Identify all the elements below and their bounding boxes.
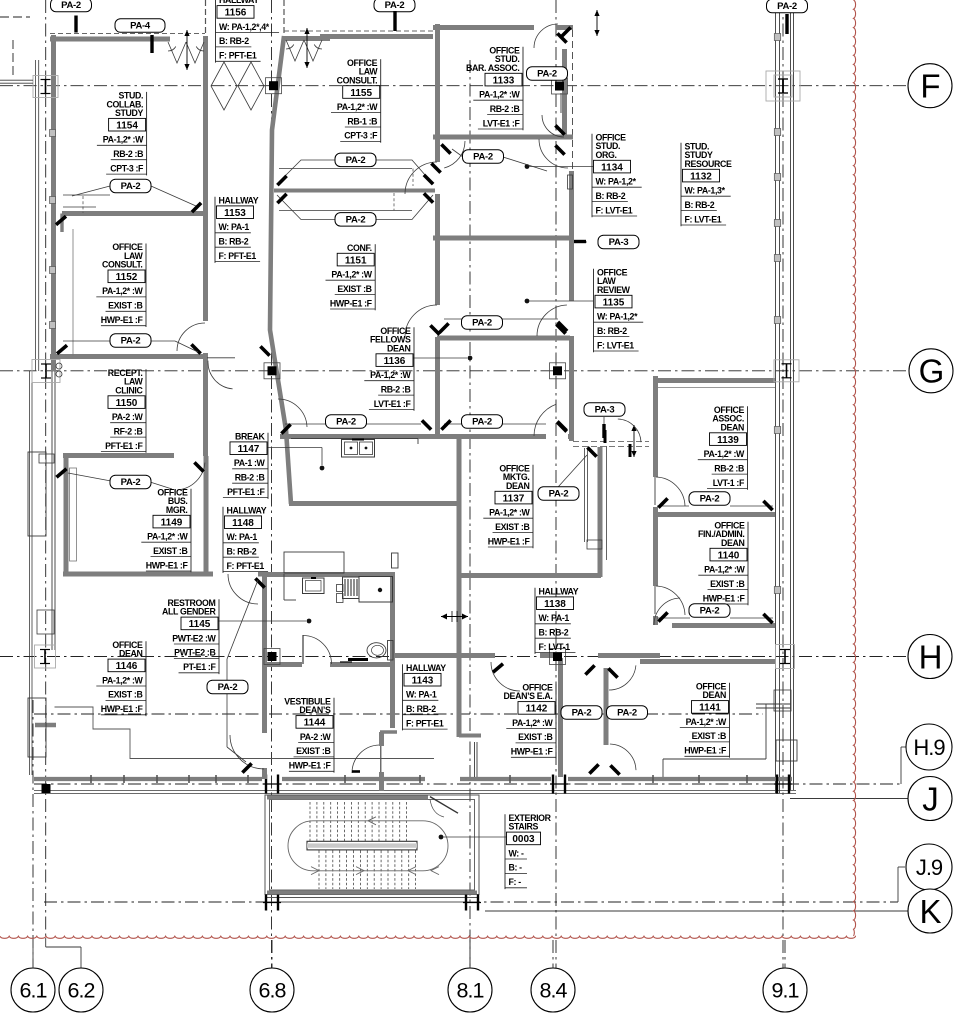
svg-text:1150: 1150: [116, 398, 138, 409]
svg-text:CONF.: CONF.: [347, 243, 372, 253]
svg-text:PA-1 :W: PA-1 :W: [234, 458, 266, 468]
top-left cut grid stubs: [0, 16, 30, 18]
south band mullion x420: [419, 775, 421, 783]
node hallway/G: [264, 363, 280, 379]
svg-text:LVT-E1 :F: LVT-E1 :F: [483, 118, 521, 128]
column symbol south band east: [776, 775, 778, 794]
door 1148->south: [228, 574, 258, 604]
wall tie east F: [766, 71, 800, 101]
mullion tick west y325: [50, 322, 56, 329]
bubble 9.1: [763, 968, 807, 1012]
svg-text:LVT-E1 :F: LVT-E1 :F: [374, 399, 412, 409]
svg-text:W: PA-1: W: PA-1: [406, 690, 437, 700]
node hallway/F: [266, 78, 282, 94]
svg-text:1143: 1143: [412, 676, 434, 687]
svg-text:DEAN: DEAN: [720, 422, 744, 432]
svg-text:1151: 1151: [345, 255, 367, 266]
svg-text:PA-2: PA-2: [473, 152, 493, 163]
svg-text:PFT-E1 :F: PFT-E1 :F: [227, 487, 265, 497]
bubble H: [908, 635, 952, 679]
south band mullion x124: [123, 775, 125, 783]
restroom small fixtures: [337, 585, 344, 592]
svg-text:PT-E1 :F: PT-E1 :F: [183, 662, 216, 672]
door 1152: [177, 323, 205, 351]
svg-text:W: PA-1: W: PA-1: [227, 532, 258, 542]
svg-text:HWP-E1 :F: HWP-E1 :F: [684, 746, 727, 756]
column symbol south band mid: [552, 775, 554, 794]
south band mullion x216: [215, 775, 217, 783]
door 1137 north: [534, 404, 556, 436]
svg-text:HWP-E1 :F: HWP-E1 :F: [488, 536, 531, 546]
stair treads lower flight: [318, 851, 320, 890]
svg-text:PA-2: PA-2: [121, 336, 141, 347]
bubble H.9: [906, 724, 952, 770]
svg-text:PA-1,2* :W: PA-1,2* :W: [704, 449, 745, 459]
svg-text:STAIRS: STAIRS: [509, 822, 539, 832]
wall 1139 west: [653, 376, 658, 477]
1137 interior casework lines: [584, 448, 586, 542]
svg-text:1148: 1148: [232, 518, 254, 529]
bubble J: [908, 777, 952, 821]
svg-text:HALLWAY: HALLWAY: [219, 0, 259, 5]
svg-text:F: LVT-1: F: LVT-1: [539, 642, 571, 652]
east exterior wall outer pair: [790, 0, 792, 790]
svg-text:B: RB-2: B: RB-2: [227, 547, 257, 557]
svg-text:H: H: [919, 638, 942, 675]
svg-text:CONSULT.: CONSULT.: [337, 75, 378, 85]
svg-text:PA-1,2* :W: PA-1,2* :W: [686, 717, 727, 727]
south exterior wall band: [34, 777, 262, 781]
leader room 1134: [525, 164, 530, 169]
door 1139: [656, 477, 685, 506]
svg-text:PA-2: PA-2: [472, 417, 492, 428]
svg-text:HALLWAY: HALLWAY: [227, 506, 267, 516]
svg-text:1152: 1152: [116, 272, 138, 283]
svg-text:PA-1,2* :W: PA-1,2* :W: [103, 135, 144, 145]
svg-text:1149: 1149: [161, 517, 183, 528]
svg-text:ALL GENDER: ALL GENDER: [162, 607, 217, 617]
svg-text:B: RB-2: B: RB-2: [219, 36, 249, 46]
restroom nook: [284, 552, 344, 573]
pill PA-2 hex lower: [335, 213, 376, 227]
west wall stub below H: [35, 723, 56, 727]
svg-text:PA-2: PA-2: [549, 489, 569, 500]
break room south wall: [289, 501, 459, 506]
svg-text:PA-2 :W: PA-2 :W: [300, 732, 332, 742]
svg-text:1155: 1155: [350, 88, 372, 99]
south band mullion x747: [746, 775, 748, 783]
svg-text:PA-2: PA-2: [218, 682, 238, 693]
1149 closet lining: [70, 468, 77, 561]
pill PA-2 kitchen: [326, 415, 367, 429]
svg-text:CPT-3 :F: CPT-3 :F: [344, 131, 378, 141]
bubble G: [909, 349, 953, 393]
svg-text:PA-4: PA-4: [130, 21, 151, 32]
door vestibule west: [230, 735, 264, 769]
bubble J.9: [906, 844, 952, 890]
toilet: [388, 641, 394, 661]
west exterior wall outer face (above G): [35, 60, 37, 371]
aux dash-dot line y714: [34, 713, 763, 715]
west exterior wall (F to G): [51, 35, 56, 371]
svg-text:1137: 1137: [503, 493, 525, 504]
south band mullion x510: [509, 775, 511, 783]
bubble K: [908, 889, 952, 933]
grid line 9.1: [782, 0, 784, 968]
svg-text:BREAK: BREAK: [235, 432, 266, 442]
double-acting door diamonds at hallway 1156/1153: [211, 62, 237, 110]
svg-text:W: PA-1,2*: W: PA-1,2*: [596, 177, 637, 187]
wall restroom north: [262, 572, 395, 577]
wall 1139/1140 divider: [653, 512, 775, 517]
svg-text:EXIST :B: EXIST :B: [692, 731, 726, 741]
node 1135/G: [550, 363, 566, 379]
wall tie east H: [776, 645, 795, 669]
leader stairs 0003: [439, 835, 444, 840]
svg-text:DEAN: DEAN: [702, 690, 726, 700]
bubble 6.2: [59, 968, 103, 1012]
wall hallway1153 west / rooms 1154-1152 east: [203, 36, 208, 321]
pill PA-2 1135: [462, 316, 503, 330]
wall type arrows hallway 1143: [441, 616, 468, 618]
wall 1149-1148 south: [63, 572, 213, 577]
bubble F: [908, 64, 952, 108]
svg-text:W: PA-1,2*,4*: W: PA-1,2*,4*: [219, 22, 270, 32]
svg-text:EXIST :B: EXIST :B: [153, 546, 187, 556]
svg-text:PA-3: PA-3: [609, 237, 629, 248]
svg-text:1147: 1147: [238, 444, 260, 455]
stair corner column symbols: [265, 895, 267, 911]
wall restroom south: [262, 662, 302, 667]
door 1146->vestibule arc: [263, 732, 265, 734]
leader room 1147: [267, 447, 322, 449]
svg-text:B: RB-2: B: RB-2: [685, 200, 715, 210]
hallway1153 east wall (slanted): [270, 36, 291, 504]
svg-text:K: K: [919, 893, 941, 930]
mullion tick west y270: [50, 267, 56, 274]
entry canopy step lines: [55, 707, 435, 759]
svg-text:1138: 1138: [544, 599, 566, 610]
svg-text:PA-1,2* :W: PA-1,2* :W: [331, 270, 372, 280]
stair landing bar: [307, 841, 417, 850]
mullion tick west y133: [50, 130, 56, 137]
grid line 8.4: [555, 0, 557, 968]
svg-text:1142: 1142: [526, 704, 548, 715]
svg-text:B: RB-2: B: RB-2: [597, 326, 627, 336]
pill PA-2 1140: [689, 604, 730, 618]
pill PA-2 1152: [110, 334, 151, 348]
mullion block west: [37, 610, 54, 634]
svg-text:STUDY: STUDY: [115, 108, 144, 118]
grid line K: [485, 910, 908, 912]
wall 1155-1151 east / col rooms west: [435, 24, 440, 162]
stair bottom wall gray: [267, 891, 477, 895]
window frame west 2: [28, 698, 46, 757]
svg-text:F: F: [920, 68, 939, 105]
node restroom/H: [264, 649, 280, 665]
svg-text:PA-2 :W: PA-2 :W: [112, 412, 144, 422]
svg-text:RB-2 :B: RB-2 :B: [381, 384, 411, 394]
wall restroom east: [390, 574, 395, 663]
svg-text:J.9: J.9: [916, 855, 943, 880]
restroom stall partition: [283, 574, 285, 600]
bubble 6.8: [250, 968, 294, 1012]
hallway1156 west wall dash up: [205, 0, 207, 36]
svg-text:EXIST :B: EXIST :B: [108, 301, 142, 311]
grid line J: [790, 798, 908, 800]
leader room 1136: [413, 357, 467, 359]
door 1135 east: [537, 305, 567, 336]
north wall hallway1156-1155: [284, 36, 330, 41]
grid line J.9: [44, 901, 898, 903]
pill PA-2 vestibule: [207, 680, 248, 694]
door 1136 upper (from 1151 area): [405, 162, 437, 194]
east wall mullion ticks: [774, 34, 780, 41]
svg-text:PA-2: PA-2: [336, 417, 356, 428]
svg-text:RF-2 :B: RF-2 :B: [114, 426, 143, 436]
svg-text:PA-1,2* :W: PA-1,2* :W: [479, 90, 520, 100]
svg-text:F: PFT-E1: F: PFT-E1: [406, 718, 444, 728]
grid line 6.8: [271, 0, 273, 968]
wall tie west H: [35, 645, 56, 668]
svg-text:PA-1,2* :W: PA-1,2* :W: [489, 508, 530, 518]
door 1134 from 1133 side: [444, 141, 465, 168]
svg-text:F: -: F: -: [509, 877, 522, 887]
svg-text:B: RB-2: B: RB-2: [219, 237, 249, 247]
svg-text:F: LVT-E1: F: LVT-E1: [685, 214, 722, 224]
svg-text:W: PA-1,2*: W: PA-1,2*: [597, 312, 638, 322]
svg-text:PA-2: PA-2: [385, 0, 405, 11]
wall corridor east (1141 west): [604, 668, 609, 745]
svg-text:RB-2 :B: RB-2 :B: [714, 463, 744, 473]
wall tie east G: [774, 360, 799, 382]
wall tie west G: [32, 360, 60, 383]
svg-text:EXIST :B: EXIST :B: [710, 579, 744, 589]
svg-text:1154: 1154: [116, 121, 138, 132]
svg-text:EXIST :B: EXIST :B: [296, 746, 330, 756]
pill PA-3 1134 area: [580, 241, 587, 243]
bulkhead 1135: [444, 318, 462, 320]
south band mullion x91: [90, 775, 92, 783]
1152 east lining: [72, 229, 74, 356]
window frame west 1: [28, 452, 46, 536]
svg-text:PA-1,2* :W: PA-1,2* :W: [337, 102, 378, 112]
svg-text:EXIST :B: EXIST :B: [108, 690, 142, 700]
svg-text:PA-2: PA-2: [121, 181, 141, 192]
bubble 8.1: [448, 968, 492, 1012]
svg-text:HALLWAY: HALLWAY: [539, 587, 579, 597]
svg-text:HWP-E1 :F: HWP-E1 :F: [289, 761, 332, 771]
wall 1150/1149 divider: [63, 453, 174, 458]
pill PA-2 1149: [110, 475, 151, 489]
svg-text:1146: 1146: [116, 661, 138, 672]
svg-text:CLINIC: CLINIC: [115, 385, 143, 395]
pill PA-2 1137 door header: [559, 455, 588, 487]
door jamb bolds hallway1138: [604, 430, 607, 443]
wall hallway1148 west: [204, 456, 209, 574]
svg-text:1144: 1144: [304, 718, 326, 729]
south band mullion x248: [247, 775, 249, 783]
restroom sink: [303, 578, 325, 594]
wall 1133 south: [433, 135, 573, 140]
pill PA-2 1139: [689, 492, 730, 506]
svg-text:F: LVT-E1: F: LVT-E1: [597, 340, 634, 350]
dashed outline above north walls: [50, 33, 205, 35]
svg-text:PA-1,2* :W: PA-1,2* :W: [512, 718, 553, 728]
door hallway1143 at H: [491, 662, 520, 691]
svg-text:PA-2: PA-2: [617, 708, 637, 719]
svg-text:PA-3: PA-3: [595, 405, 615, 416]
stair door leaf: [430, 797, 458, 814]
small frame on 1134 east wall: [568, 175, 573, 189]
svg-text:ORG.: ORG.: [596, 150, 617, 160]
svg-text:PA-2: PA-2: [61, 0, 81, 11]
svg-text:1156: 1156: [225, 8, 247, 19]
leader restroom PA-2 pill: [226, 659, 228, 681]
wall 1133 east: [562, 49, 567, 138]
node 1138/H: [550, 649, 566, 665]
svg-text:HWP-E1 :F: HWP-E1 :F: [330, 298, 373, 308]
svg-text:F: PFT-E1: F: PFT-E1: [219, 51, 257, 61]
svg-text:RB-2 :B: RB-2 :B: [235, 473, 265, 483]
leader room 1145: [218, 620, 306, 622]
bulkhead 1154: [63, 194, 110, 196]
svg-text:F: LVT-E1: F: LVT-E1: [596, 205, 633, 215]
svg-text:1134: 1134: [601, 162, 623, 173]
mullion tick west y200: [50, 197, 56, 204]
svg-text:DEAN’S: DEAN’S: [299, 705, 331, 715]
vestibule east wall: [379, 732, 384, 746]
svg-text:RESOURCE: RESOURCE: [685, 159, 733, 169]
door corridor south: [610, 744, 636, 770]
south band mullion x157: [156, 775, 158, 783]
restroom threshold marks: [348, 658, 368, 661]
pills PA-2 corridor 1142/1141: [561, 706, 602, 720]
svg-text:CONSULT.: CONSULT.: [102, 260, 143, 270]
svg-text:PA-2: PA-2: [777, 1, 797, 12]
svg-text:H.9: H.9: [913, 735, 945, 760]
svg-text:DEAN’S E.A.: DEAN’S E.A.: [504, 691, 553, 701]
svg-text:BAR. ASSOC.: BAR. ASSOC.: [466, 63, 520, 73]
node west/H.9: [42, 784, 51, 793]
west storefront inner face below G: [51, 371, 53, 650]
grid line F: [0, 85, 908, 87]
svg-text:EXIST :B: EXIST :B: [518, 732, 552, 742]
leader room 1135: [525, 299, 530, 304]
svg-text:HALLWAY: HALLWAY: [219, 196, 259, 206]
pill PA-2 hex upper: [335, 153, 376, 167]
door 1150->1149: [178, 463, 205, 490]
svg-text:PA-1,2* :W: PA-1,2* :W: [147, 532, 188, 542]
restroom shower pan: [359, 577, 393, 603]
svg-text:6.1: 6.1: [20, 979, 47, 1003]
svg-text:J: J: [922, 780, 938, 817]
stair enclosure outer box: [265, 795, 479, 895]
svg-text:8.1: 8.1: [457, 979, 484, 1003]
svg-text:W: PA-1: W: PA-1: [219, 222, 250, 232]
svg-text:HWP-E1 :F: HWP-E1 :F: [146, 560, 189, 570]
wall 1141 north: [640, 659, 775, 664]
NE corner tick: [561, 27, 570, 36]
svg-text:PA-2: PA-2: [700, 606, 720, 617]
1141 interior step lines: [663, 758, 766, 760]
red match line vertical: [854, 0, 856, 936]
svg-text:B: RB-2: B: RB-2: [539, 628, 569, 638]
dashed overhead line east of 1133: [572, 30, 574, 236]
hallway1138 dashed header wall: [573, 441, 649, 443]
bulkhead 1149: [68, 473, 111, 481]
wall 1137 west / hallway1143 east: [457, 437, 462, 737]
svg-text:W: PA-1,3*: W: PA-1,3*: [685, 186, 726, 196]
door G vestibule (PA-3 leader) east: [618, 419, 641, 442]
svg-text:PA-2: PA-2: [700, 494, 720, 505]
restroom door leaf: [302, 635, 304, 664]
bubble 6.1: [11, 968, 55, 1012]
door 1133 top: [534, 24, 558, 48]
svg-text:DEAN: DEAN: [506, 481, 530, 491]
svg-text:EXIST :B: EXIST :B: [337, 284, 371, 294]
svg-text:B: RB-2: B: RB-2: [406, 704, 436, 714]
svg-text:HALLWAY: HALLWAY: [406, 663, 446, 673]
wall 1154/1152 divider: [62, 211, 205, 216]
grid line 6.1: [32, 700, 34, 968]
door 1140->1141: [654, 598, 680, 625]
bubble 8.4: [531, 968, 575, 1012]
wall 1137 south: [457, 573, 601, 578]
wall 1137 east: [598, 447, 603, 577]
svg-text:MGR.: MGR.: [166, 505, 188, 515]
stair top wall gray: [267, 796, 428, 800]
svg-text:1136: 1136: [384, 356, 406, 367]
svg-text:DEAN: DEAN: [119, 649, 143, 659]
grid line H: [0, 656, 908, 658]
pill PA-2 1133: [527, 67, 568, 81]
svg-text:LVT-1 :F: LVT-1 :F: [713, 478, 745, 488]
wall 1139 north: [653, 378, 775, 383]
svg-text:REVIEW: REVIEW: [597, 285, 631, 295]
svg-text:PA-2: PA-2: [121, 477, 141, 488]
svg-text:RB-1 :B: RB-1 :B: [347, 116, 377, 126]
stair direction arrows: [368, 817, 376, 825]
door break room on slant wall: [278, 399, 307, 427]
kitchen double sink: [342, 440, 375, 458]
door corridor/1141 top: [609, 665, 636, 690]
wall at H line (1138 south): [392, 653, 495, 658]
svg-text:1141: 1141: [699, 703, 721, 714]
svg-text:W: PA-1: W: PA-1: [539, 613, 570, 623]
wall 1152/1150 divider: [50, 354, 207, 359]
stair south parapet lines: [265, 897, 479, 899]
red match line horizontal: [0, 936, 856, 938]
svg-text:PA-1,2* :W: PA-1,2* :W: [102, 675, 143, 685]
grid line G: [0, 370, 909, 372]
wall 1134/1135 divider: [433, 236, 573, 241]
svg-text:1132: 1132: [690, 171, 712, 182]
east exterior wall inner pair: [775, 0, 777, 793]
svg-text:8.4: 8.4: [540, 979, 568, 1003]
svg-text:HWP-E1 :F: HWP-E1 :F: [101, 315, 144, 325]
north wall room 1154: [50, 37, 170, 42]
svg-text:B: RB-2: B: RB-2: [596, 191, 626, 201]
pill PA-3 G area: [603, 417, 605, 424]
svg-text:DEAN: DEAN: [387, 343, 411, 353]
svg-text:PA-2: PA-2: [472, 318, 492, 329]
door 1140: [656, 586, 685, 615]
column symbol south band west: [265, 775, 267, 794]
svg-text:G: G: [919, 353, 944, 390]
svg-text:F: PFT-E1: F: PFT-E1: [227, 561, 265, 571]
svg-text:PA-1,2* :W: PA-1,2* :W: [704, 565, 745, 575]
